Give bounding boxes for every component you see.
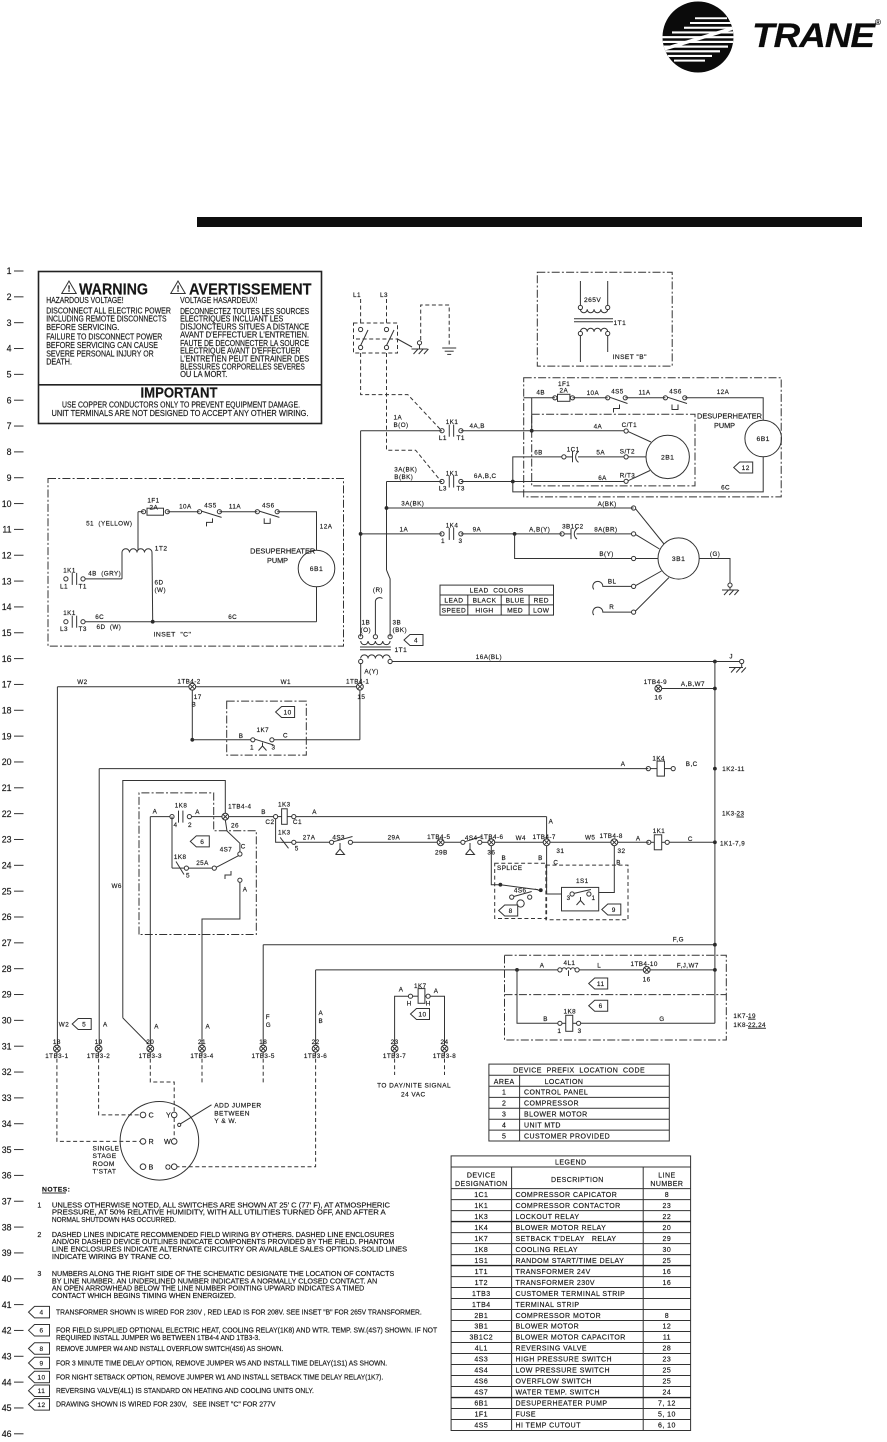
contact 1K1 L1-T1 [361,419,465,442]
svg-text:C: C [149,1111,155,1120]
svg-text:A: A [243,887,248,894]
wire F,G [263,937,717,947]
svg-text:1K8: 1K8 [175,802,188,809]
svg-text:C1: C1 [293,819,302,826]
inset C box [48,479,344,647]
terminal S/T2 [596,448,646,459]
svg-text:®: ® [875,18,881,27]
svg-text:6: 6 [7,395,12,405]
splice box (dashed) [495,863,547,918]
wire 29A [353,841,438,843]
svg-text:4S5: 4S5 [204,502,217,509]
svg-text:5, 10: 5, 10 [658,1412,676,1419]
svg-text:4S5: 4S5 [611,388,624,395]
svg-text:13: 13 [2,576,12,586]
svg-text:32: 32 [2,1067,12,1077]
svg-text:W6: W6 [112,883,122,890]
terminal C/T1 [594,422,651,442]
svg-text:1S1: 1S1 [474,1258,488,1265]
svg-text:11A: 11A [229,504,241,511]
svg-text:18: 18 [2,705,12,715]
svg-text:T1: T1 [79,583,87,590]
svg-text:23: 23 [663,1203,672,1210]
room thermostat circle [120,1102,199,1181]
flag 6 lower [589,1000,608,1011]
svg-text:1TB4-9: 1TB4-9 [644,679,667,686]
terminal 1TB4-6 [480,834,503,857]
wire to 1TB3-3 [149,817,151,1046]
svg-text:DESUPERHEATER PUMP: DESUPERHEATER PUMP [516,1401,608,1408]
wire 27A [296,841,330,843]
svg-text:RED: RED [534,598,549,605]
svg-text:BL: BL [608,579,617,586]
svg-text:L1: L1 [353,292,361,299]
svg-text:A(BK): A(BK) [598,501,617,508]
svg-text:5A: 5A [596,450,605,457]
field wiring to thermostat (dashed) [57,1052,445,1167]
terminal 1TB4-9 [644,679,717,702]
svg-text:28: 28 [663,1346,672,1353]
svg-text:1K7: 1K7 [257,727,270,734]
svg-text:IMPORTANT: IMPORTANT [141,385,218,401]
svg-text:COMPRESSOR: COMPRESSOR [524,1100,579,1107]
svg-text:1K7: 1K7 [474,1236,488,1243]
svg-text:23: 23 [2,835,12,845]
svg-text:AREA: AREA [494,1079,515,1086]
svg-text:1K7-: 1K7- [733,1013,748,1020]
svg-text:10A: 10A [587,390,600,397]
wire A down to 1TB4-7 [547,817,554,839]
svg-text:23: 23 [663,1357,672,1364]
run capacitor 1C1 [562,447,624,463]
svg-text:(O): (O) [361,627,372,634]
svg-text:2: 2 [7,292,12,302]
svg-text:1K1: 1K1 [474,1203,488,1210]
svg-text:R: R [609,604,614,611]
svg-text:UNIT MTD: UNIT MTD [524,1122,561,1129]
svg-text:3: 3 [459,538,463,545]
3B1 lead A(BK) [598,501,664,544]
svg-text:C/T1: C/T1 [622,422,637,429]
svg-text:29: 29 [663,1236,672,1243]
svg-text:14: 14 [2,602,12,612]
switch 4S6 overflow switch [663,388,687,409]
svg-text:OU LA MORT.: OU LA MORT. [180,370,227,379]
reversing valve solenoid 4L1 [517,960,643,976]
svg-text:1TB4-2: 1TB4-2 [177,679,200,686]
switch 4S7 water temp [189,820,246,879]
flag 4 at 1T1 [404,635,423,646]
svg-text:20: 20 [2,757,12,767]
4S7 terminal A to 1TB3-4 [202,878,248,1045]
svg-text:21: 21 [198,1039,206,1046]
right bus [714,662,716,1024]
svg-text:!: ! [68,284,71,294]
day/nite signal caption [377,1083,451,1099]
wire L3 field (dashed) to 1K1 [387,353,441,480]
1T1 secondary [359,655,393,664]
wire A(Y) to 1TB4-1 [361,664,379,684]
svg-text:1T2: 1T2 [155,546,168,553]
desuperheater pump motor 6B1 [745,420,782,457]
svg-text:WATER TEMP. SWITCH: WATER TEMP. SWITCH [516,1390,600,1397]
svg-text:1: 1 [592,895,596,902]
svg-text:11: 11 [663,1335,671,1342]
svg-text:A(Y): A(Y) [364,669,378,676]
svg-text:12: 12 [742,465,750,472]
svg-text:4S4: 4S4 [465,835,478,842]
svg-text:3B1: 3B1 [474,1324,488,1331]
flag 5 at W2 [59,1019,91,1030]
device prefix location code table [489,1064,669,1141]
svg-text:T3: T3 [457,486,465,493]
svg-text:17: 17 [194,694,202,701]
flag 11 [589,978,608,989]
svg-text:3: 3 [567,895,571,902]
svg-text:VOLTAGE HASARDEUX!: VOLTAGE HASARDEUX! [180,296,257,305]
label A B [319,1010,324,1025]
svg-text:1: 1 [250,745,254,752]
svg-text:CONTACT WHICH BEGINS TIMING WH: CONTACT WHICH BEGINS TIMING WHEN ENERGIZ… [52,1291,236,1300]
W6 jumper [112,781,226,1018]
contact 1K8 5 (NC) [172,817,190,880]
svg-text:PUMP: PUMP [714,421,735,430]
svg-text:1T2: 1T2 [475,1280,488,1287]
svg-text:1K1: 1K1 [653,828,666,835]
svg-text:4L1: 4L1 [564,960,576,967]
svg-text:A: A [153,808,158,815]
wire 6B [513,449,562,481]
svg-text:31: 31 [556,848,564,855]
svg-text:BLOWER MOTOR RELAY: BLOWER MOTOR RELAY [516,1225,607,1232]
bus 3A(BK) [385,482,634,637]
terminal 1TB4-8 [600,833,626,867]
svg-text:Y: Y [166,1111,171,1120]
svg-text:B: B [261,809,266,816]
svg-text:2: 2 [37,1230,41,1239]
svg-text:B(O): B(O) [394,422,409,429]
svg-text:18: 18 [53,1039,61,1046]
svg-text:A: A [636,835,641,842]
svg-text:5: 5 [7,370,12,380]
terminal 1TB4-10 [631,961,717,984]
svg-text:16: 16 [654,695,662,702]
svg-text:4: 4 [414,637,418,644]
disconnect switch poles [356,327,412,349]
svg-text:W2: W2 [77,679,87,686]
svg-text:6D: 6D [155,580,164,587]
svg-text:STAGE: STAGE [93,1153,117,1160]
terminal 1TB4-1 [346,679,369,701]
svg-text:1TB4-4: 1TB4-4 [228,804,251,811]
svg-text:(G): (G) [710,551,720,558]
svg-text:INSET "C": INSET "C" [154,632,192,639]
contact 1K3 5 (NC) [276,819,299,853]
black title bar [197,217,862,227]
svg-text:UNIT TERMINALS ARE NOT DESIGNE: UNIT TERMINALS ARE NOT DESIGNED TO ACCEP… [52,409,309,418]
svg-text:6A,B,C: 6A,B,C [474,473,497,480]
svg-text:L3: L3 [380,292,388,299]
svg-text:INDICATE WIRING BY TRANE CO.: INDICATE WIRING BY TRANE CO. [52,1252,172,1261]
svg-text:FOR NIGHT SETBACK OPTION, REMO: FOR NIGHT SETBACK OPTION, REMOVE JUMPER … [56,1372,383,1381]
svg-text:9: 9 [612,907,616,914]
svg-text:1TB4: 1TB4 [472,1302,491,1309]
svg-text:11: 11 [38,1388,46,1395]
svg-text:6B1: 6B1 [310,566,323,573]
svg-text:DEVICE: DEVICE [467,1173,496,1180]
svg-text:1S1: 1S1 [576,878,589,885]
svg-text:1K1: 1K1 [446,419,459,426]
compressor motor 2B1 [646,435,689,478]
svg-text:11: 11 [597,981,605,988]
svg-text:RANDOM START/TIME DELAY: RANDOM START/TIME DELAY [516,1258,625,1265]
svg-text:B: B [502,855,507,862]
1T1 red tap (R) [373,587,383,634]
svg-text:2B1: 2B1 [474,1313,488,1320]
svg-text:4B (GRY): 4B (GRY) [88,571,121,578]
svg-text:16: 16 [663,1269,672,1276]
svg-text:DEATH.: DEATH. [46,358,72,367]
ground J [713,654,746,673]
svg-text:3: 3 [7,318,12,328]
svg-text:LOCKOUT RELAY: LOCKOUT RELAY [516,1214,580,1221]
svg-text:6C: 6C [721,484,730,491]
svg-text:11: 11 [2,525,11,535]
svg-text:1K3: 1K3 [278,830,291,837]
left bus A to 1TB3-2 [98,769,100,1046]
svg-text:DESUPERHEATER: DESUPERHEATER [250,547,315,556]
inset C switch 4S6 [255,502,279,523]
svg-text:1K1: 1K1 [446,470,459,477]
wire B(Y) [515,534,632,559]
svg-text:8: 8 [665,1313,669,1320]
svg-text:1K4: 1K4 [446,522,459,529]
svg-text:A: A [103,1022,108,1029]
chassis ground at disconnect [412,341,429,354]
label F G [266,1014,271,1029]
svg-text:6C: 6C [95,614,104,621]
svg-text:1C1: 1C1 [474,1192,488,1199]
svg-text:S/T2: S/T2 [620,448,635,455]
svg-text:1TB4-10: 1TB4-10 [631,961,658,968]
svg-text:12A: 12A [717,389,730,396]
contact 1K4 1-3 [361,522,482,544]
wire A,B(Y) with capacitor 3B1C2 [461,524,632,540]
svg-text:10: 10 [284,709,292,716]
svg-text:3: 3 [37,1269,41,1278]
terminal 1TB3-1 [45,1039,68,1060]
svg-text:24: 24 [440,1039,448,1046]
schematic line numbers 1-46 [2,266,24,1439]
3B1 lead B(Y) [632,556,659,560]
svg-text:F: F [266,1014,270,1021]
svg-text:TRANSFORMER SHOWN IS WIRED FOR: TRANSFORMER SHOWN IS WIRED FOR 230V , RE… [56,1307,422,1316]
svg-text:H: H [407,1000,412,1007]
svg-text:43: 43 [2,1351,12,1361]
svg-text:B(BK): B(BK) [394,474,413,481]
svg-text:OVERFLOW SWITCH: OVERFLOW SWITCH [516,1379,592,1386]
svg-text:G: G [659,1016,664,1023]
svg-text:265V: 265V [584,297,601,304]
svg-text:SINGLE: SINGLE [93,1146,120,1153]
svg-text:4L1: 4L1 [475,1346,488,1353]
transformer 1T1 primary [359,635,408,654]
svg-text:27A: 27A [303,835,316,842]
svg-text:REMOVE JUMPER W4 AND INSTALL O: REMOVE JUMPER W4 AND INSTALL OVERFLOW SW… [56,1344,283,1353]
svg-text:6: 6 [599,1003,603,1010]
svg-text:10: 10 [418,1011,426,1018]
svg-text:5: 5 [295,846,299,853]
left feeder bus [359,431,363,637]
svg-text:F,J,W7: F,J,W7 [677,962,699,969]
svg-text:12: 12 [663,1324,672,1331]
svg-text:41: 41 [2,1300,12,1310]
svg-text:B,C: B,C [686,761,698,768]
svg-text:1A: 1A [400,526,409,533]
svg-text:O: O [165,1162,171,1171]
label 1K3-23 [722,811,744,818]
svg-text:5: 5 [186,872,190,879]
3B1 lead R [593,578,669,616]
svg-text:1TB4-6: 1TB4-6 [480,834,503,841]
svg-text:29: 29 [2,990,12,1000]
svg-text:DESUPERHEATER: DESUPERHEATER [697,412,762,421]
svg-text:1K4: 1K4 [652,755,665,762]
wire 12A to pump [685,398,763,420]
labels 1K7-19 1K8-22,24 [733,1013,766,1029]
svg-text:PUMP: PUMP [267,556,288,565]
wire 6A,B,C into compressor [461,480,624,484]
svg-text:19: 19 [2,731,12,741]
svg-text:Y & W.: Y & W. [214,1118,237,1125]
svg-text:LEAD: LEAD [444,598,463,605]
svg-text:DESIGNATION: DESIGNATION [455,1181,508,1188]
svg-text:B: B [319,1018,324,1025]
svg-text:NUMBER: NUMBER [650,1181,683,1188]
svg-text:W: W [164,1137,171,1146]
svg-text:27: 27 [2,938,12,948]
relay coil 1K4 line 20 [99,755,745,776]
thermostat terminals [140,1111,177,1172]
Trane logo globe [660,2,736,73]
svg-text:CONTROL PANEL: CONTROL PANEL [524,1090,588,1097]
wire 10A [573,397,608,399]
wire L1 field (dashed) to 1K1 [361,353,440,429]
svg-text:4S5: 4S5 [474,1423,488,1430]
svg-text:CUSTOMER TERMINAL STRIP: CUSTOMER TERMINAL STRIP [516,1291,626,1298]
svg-text:BETWEEN: BETWEEN [214,1110,250,1117]
svg-text:23: 23 [391,1039,399,1046]
svg-text:BLOWER MOTOR CAPACITOR: BLOWER MOTOR CAPACITOR [516,1335,626,1342]
svg-text:FUSE: FUSE [516,1412,536,1419]
svg-text:REVERSING VALVE: REVERSING VALVE [516,1346,587,1353]
contact 1K1 L3-T3 [387,470,497,492]
wire 16A(BL) [392,654,715,662]
svg-text:28: 28 [2,964,12,974]
svg-text:36: 36 [2,1171,12,1181]
svg-text:6D (W): 6D (W) [97,624,122,631]
svg-text:COOLING RELAY: COOLING RELAY [516,1247,579,1254]
svg-text:TRANSFORMER 230V: TRANSFORMER 230V [516,1280,596,1287]
svg-text:2A: 2A [150,504,159,511]
1T1 lead labels [361,620,408,635]
flag notes [29,1306,438,1410]
svg-text:CUSTOMER PROVIDED: CUSTOMER PROVIDED [524,1133,610,1140]
svg-text:42: 42 [2,1326,12,1336]
svg-text:6: 6 [39,1328,43,1335]
svg-text:C: C [283,733,288,740]
svg-text:1TB4-5: 1TB4-5 [427,834,450,841]
svg-text:8: 8 [665,1192,669,1199]
svg-text:7: 7 [7,421,12,431]
svg-text:1K4: 1K4 [474,1225,488,1232]
svg-text:16: 16 [643,977,651,984]
svg-text:5: 5 [502,1133,506,1140]
flag 12 [734,462,753,473]
terminal 1TB3-6 [304,1039,327,1060]
inset C pump 6B1 [298,550,335,587]
svg-text:23: 23 [737,811,745,818]
svg-text:B: B [149,1162,154,1171]
svg-text:1TB4-7: 1TB4-7 [533,834,556,841]
svg-text:6: 6 [200,839,204,846]
svg-text:1K8-: 1K8- [733,1022,748,1029]
switch 4S5 hi temp cutout [606,388,628,412]
svg-text:6, 10: 6, 10 [658,1423,676,1430]
svg-text:24: 24 [2,861,12,871]
flag 10 lower [411,1009,430,1020]
svg-text:1C1: 1C1 [567,447,580,454]
svg-text:ADD JUMPER: ADD JUMPER [214,1103,261,1110]
svg-text:REQUIRED INSTALL JUMPER W6 BET: REQUIRED INSTALL JUMPER W6 BETWEEN 1TB4-… [56,1333,260,1342]
svg-text:1K1-7,9: 1K1-7,9 [720,840,745,847]
svg-text:C: C [241,844,246,851]
disconnect switch (field) box [354,323,398,353]
svg-text:3A(BK): 3A(BK) [401,501,424,508]
svg-text:A: A [434,988,439,995]
svg-text:A: A [312,809,317,816]
svg-text:G: G [266,1022,271,1029]
svg-text:24: 24 [663,1390,672,1397]
svg-text:1B: 1B [362,620,371,627]
svg-text:25A: 25A [196,860,209,867]
inset B transformer 1T1 265V [574,281,626,362]
switch 4S3 high pressure [330,834,353,854]
svg-text:LEAD COLORS: LEAD COLORS [470,588,524,595]
svg-text:4S6: 4S6 [262,502,275,509]
svg-text:1K1: 1K1 [63,610,76,617]
svg-text:2: 2 [502,1100,506,1107]
contact 1K7 1-3 timed [190,690,359,751]
terminal 1TB3-5 [252,1039,275,1060]
svg-text:1T1: 1T1 [475,1269,488,1276]
svg-text:4: 4 [7,344,12,354]
svg-text:2A: 2A [560,388,569,395]
svg-text:T3: T3 [79,626,87,633]
svg-text:DRAWING SHOWN IS WIRED FOR 230: DRAWING SHOWN IS WIRED FOR 230V, SEE INS… [56,1400,276,1409]
svg-text:25: 25 [663,1368,672,1375]
svg-text:HIGH: HIGH [475,608,493,615]
svg-text:1K8: 1K8 [564,1009,577,1016]
svg-text:4: 4 [39,1310,43,1317]
svg-text:REVERSING VALVE(4L1) IS STANDA: REVERSING VALVE(4L1) IS STANDARD ON HEAT… [56,1386,314,1395]
svg-text:26: 26 [231,822,239,829]
option box 1K8/4S7 (dash-dot) [139,793,256,935]
svg-text:4S6: 4S6 [474,1379,488,1386]
svg-text:39: 39 [2,1248,12,1258]
svg-text:12A: 12A [320,524,333,531]
svg-text:1K2-11: 1K2-11 [722,766,745,773]
